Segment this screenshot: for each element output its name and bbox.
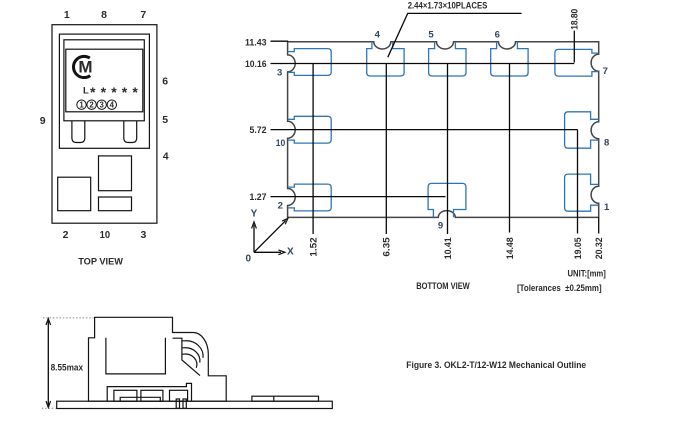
- axis diagonal line: [254, 221, 286, 253]
- svg-text:[Tolerances ±0.25mm]: [Tolerances ±0.25mm]: [517, 283, 602, 293]
- svg-text:9: 9: [40, 115, 46, 127]
- svg-text:3: 3: [140, 229, 146, 241]
- dim line 11.43: [271, 40, 289, 42]
- axis X line: [254, 251, 281, 253]
- pad 1: [565, 174, 599, 211]
- dim line 5.72: [271, 129, 578, 131]
- svg-text:11.43: 11.43: [245, 38, 267, 49]
- side view component 3: [170, 390, 188, 401]
- svg-text:1: 1: [79, 101, 84, 110]
- pad 6: [491, 42, 528, 76]
- murata logo arc: [73, 56, 90, 77]
- circled digit 2: [87, 100, 96, 109]
- dim line 20.32: [598, 217, 600, 233]
- pad 3: [288, 49, 331, 76]
- axis X arrowhead: [278, 250, 285, 255]
- side view low component: [120, 397, 160, 401]
- top view leg right: [124, 121, 137, 143]
- top view inner rect: [64, 40, 144, 121]
- svg-text:14.48: 14.48: [505, 237, 516, 259]
- top view label area: [66, 49, 143, 112]
- svg-text:BOTTOM VIEW: BOTTOM VIEW: [416, 281, 470, 292]
- svg-text:8: 8: [604, 137, 609, 148]
- height dim dotted top: [43, 317, 94, 319]
- svg-text:0: 0: [246, 253, 252, 264]
- svg-text:*****: *****: [90, 84, 143, 100]
- top view outer outline: [52, 25, 157, 224]
- circled digit 1: [77, 100, 86, 109]
- side view pin a: [176, 399, 179, 408]
- side view right plate divider: [273, 396, 275, 401]
- side view lower assembly outline: [107, 383, 191, 401]
- svg-text:2: 2: [63, 229, 69, 241]
- side view pcb: [57, 401, 333, 408]
- svg-text:UNIT:[mm]: UNIT:[mm]: [568, 269, 606, 279]
- svg-text:1.52: 1.52: [308, 237, 319, 256]
- svg-text:3: 3: [277, 68, 282, 79]
- side view right plate: [252, 396, 319, 401]
- svg-text:7: 7: [140, 9, 146, 21]
- axis Y line: [253, 225, 255, 253]
- side view lead arc 2: [182, 348, 200, 363]
- side view lead arc 1: [182, 341, 203, 358]
- dim line 1.52: [312, 64, 314, 235]
- svg-text:Figure 3. OKL2-T/12-W12 Mechan: Figure 3. OKL2-T/12-W12 Mechanical Outli…: [406, 360, 586, 371]
- svg-text:10: 10: [276, 138, 286, 149]
- svg-text:10: 10: [100, 229, 111, 241]
- svg-text:4: 4: [110, 101, 115, 110]
- dim line 14.48: [509, 64, 511, 233]
- circled digit 4: [107, 100, 116, 109]
- side view inner step and fan wall: [173, 338, 201, 375]
- dim line 19.05: [577, 130, 579, 234]
- leader 2.44x1.73: [388, 13, 522, 57]
- svg-text:6.35: 6.35: [382, 237, 393, 257]
- top view short component: [99, 197, 132, 211]
- height dim dotted bottom: [42, 407, 56, 409]
- svg-text:M: M: [78, 58, 92, 77]
- svg-text:1: 1: [604, 202, 610, 213]
- svg-text:10.16: 10.16: [245, 59, 267, 70]
- height dim arrow bottom: [46, 401, 51, 408]
- dim line 18.80: [573, 31, 575, 63]
- side view cavity: [106, 338, 165, 374]
- svg-text:8: 8: [101, 9, 107, 21]
- pad 4: [367, 42, 404, 76]
- svg-text:Y: Y: [251, 208, 258, 219]
- svg-text:L: L: [83, 85, 89, 96]
- side view module body: [89, 317, 227, 401]
- dim line 10.41: [447, 64, 449, 235]
- dim line 1.27: [271, 196, 446, 198]
- svg-text:9: 9: [438, 221, 443, 232]
- svg-text:4: 4: [375, 29, 381, 40]
- dim line 6.35: [385, 64, 387, 235]
- svg-text:6: 6: [162, 76, 168, 88]
- top view leg left: [72, 121, 85, 143]
- top view tall component: [99, 156, 132, 191]
- svg-text:6: 6: [495, 30, 500, 41]
- svg-text:5: 5: [428, 30, 434, 41]
- svg-text:4: 4: [163, 151, 169, 163]
- side view pin b: [183, 399, 186, 408]
- side view component 1: [114, 390, 137, 401]
- svg-text:X: X: [287, 247, 294, 258]
- svg-text:18.80: 18.80: [570, 9, 581, 30]
- pad 2: [288, 184, 331, 211]
- svg-text:3: 3: [100, 101, 105, 110]
- svg-text:5: 5: [162, 114, 168, 126]
- top view body rect: [59, 34, 149, 148]
- svg-text:19.05: 19.05: [573, 237, 584, 260]
- height dim arrow top: [46, 319, 51, 326]
- svg-text:8.55max: 8.55max: [51, 362, 84, 372]
- svg-text:2: 2: [278, 200, 283, 211]
- height dim line: [47, 319, 49, 407]
- side view lead arc 3: [182, 354, 197, 368]
- pad 5: [429, 42, 466, 76]
- svg-text:5.72: 5.72: [250, 125, 267, 136]
- pad 9: [428, 183, 466, 217]
- svg-text:7: 7: [603, 66, 608, 77]
- svg-text:2.44×1.73×10PLACES: 2.44×1.73×10PLACES: [408, 1, 488, 12]
- pad 7: [555, 49, 599, 76]
- dim line 10.16: [271, 63, 575, 65]
- svg-text:10.41: 10.41: [443, 237, 454, 260]
- pad 10: [288, 116, 331, 143]
- circled digit 3: [97, 100, 106, 109]
- svg-text:1.27: 1.27: [250, 192, 267, 203]
- top view square component: [58, 177, 91, 211]
- bottom view module outline with castellations: [288, 42, 599, 218]
- pad 8: [565, 112, 599, 148]
- axis diagonal arrowhead: [282, 218, 288, 224]
- axis Y arrowhead: [252, 222, 257, 229]
- svg-text:TOP VIEW: TOP VIEW: [78, 256, 123, 267]
- svg-text:20.32: 20.32: [594, 237, 605, 259]
- svg-text:2: 2: [89, 101, 94, 110]
- svg-text:1: 1: [64, 9, 70, 21]
- side view component 2: [141, 390, 163, 401]
